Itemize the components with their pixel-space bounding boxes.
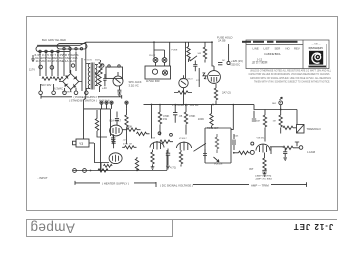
wire drop x151 <box>151 105 153 139</box>
svg-text:2A SLO-BLO: 2A SLO-BLO <box>180 78 193 81</box>
svg-text:117VAC 60W: 117VAC 60W <box>146 80 160 83</box>
svg-text:INT: INT <box>249 167 254 171</box>
page frame <box>27 17 338 237</box>
jack J3 footswitch block <box>73 139 95 147</box>
capacitor C6 filter-can <box>105 101 108 104</box>
capacitor C7 filter-can <box>110 101 113 104</box>
svg-text:PILOT: PILOT <box>149 55 156 57</box>
resistor R14 <box>283 126 297 129</box>
title block <box>242 40 331 83</box>
svg-text:V1A 6SL7: V1A 6SL7 <box>109 119 121 123</box>
resistor R6 diagonal <box>202 72 208 80</box>
bridge rectifier D1-D4 <box>59 70 82 92</box>
wire V6 to bus <box>183 88 185 105</box>
resistor R1 <box>42 77 52 80</box>
resistor R17 <box>137 132 150 135</box>
node J2 <box>211 41 213 43</box>
svg-text:FUSE: FUSE <box>172 50 178 52</box>
svg-text:J-12 JET: J-12 JET <box>293 222 333 231</box>
svg-text:( STAND BY SWITCH ): ( STAND BY SWITCH ) <box>69 98 97 102</box>
switch SW2 <box>190 56 197 61</box>
wire speaker tap <box>295 142 299 146</box>
resistor R28 dropping <box>99 60 102 74</box>
wire top B+ run <box>80 42 212 45</box>
wire AC drop <box>154 42 165 57</box>
svg-text:V2 6SL7: V2 6SL7 <box>179 138 188 140</box>
capacitor C15 interstage <box>112 136 116 148</box>
resistor R29 output <box>283 146 293 149</box>
svg-text:unimusic: unimusic <box>308 46 322 50</box>
svg-text:470K 1M: 470K 1M <box>123 144 132 146</box>
annotation dc signal line <box>193 182 307 187</box>
capacitor C17 <box>233 134 235 150</box>
resistor R24 grid leak <box>122 146 136 149</box>
svg-text:TONE CKT: TONE CKT <box>207 128 219 130</box>
resistor R22 <box>234 151 251 154</box>
node trem grid <box>251 142 254 145</box>
svg-text:+AMP OSC BIAS: +AMP OSC BIAS <box>255 178 272 181</box>
resistor R11 <box>210 105 213 129</box>
resistor R8 <box>214 84 217 105</box>
svg-text:Y3: Y3 <box>79 142 83 146</box>
node bus1 <box>151 104 153 106</box>
svg-text:470K: 470K <box>189 114 195 118</box>
resistor R3 <box>98 75 101 93</box>
wire heater drops <box>40 52 76 77</box>
node R22a <box>233 152 235 154</box>
pilot lamp PL1 <box>153 58 158 63</box>
capacitor C5 filter-can <box>100 101 103 104</box>
svg-text:VOL 1M: VOL 1M <box>214 164 222 166</box>
svg-text:CAPACITOR VALUES IN MICROFARAD: CAPACITOR VALUES IN MICROFARADS. VOLTAGE… <box>249 72 330 76</box>
svg-text:BLK GRN YEL RED: BLK GRN YEL RED <box>42 40 66 42</box>
svg-text:(LAMP DRIVEN): (LAMP DRIVEN) <box>255 174 272 177</box>
wire rect left branch <box>170 42 200 87</box>
capacitor C11 <box>111 134 115 140</box>
terminal TP4 <box>74 91 78 95</box>
svg-text:40 20 20 40: 40 20 20 40 <box>99 100 110 102</box>
svg-text:117VAC 60 W FUSE 1A SLO: 117VAC 60 W FUSE 1A SLO <box>36 59 77 63</box>
wire shield drop left <box>84 42 86 139</box>
node pin8 <box>101 64 104 67</box>
capacitor C18 plate <box>115 112 119 126</box>
capacitor C9 <box>173 105 177 123</box>
svg-text:SER: SER <box>275 46 281 50</box>
resistor R19 cathode <box>151 150 154 167</box>
resistor R13 <box>279 110 282 134</box>
resistor R10 <box>184 105 187 135</box>
transformer T1 secondary loops <box>36 44 87 52</box>
terminal TP3 <box>63 91 67 95</box>
wire fuse lead <box>228 44 230 61</box>
resistor R26 tone <box>215 134 218 153</box>
svg-text:LIST: LIST <box>264 46 270 50</box>
tube V3A triode envelope <box>177 142 192 151</box>
tube V1B triode envelope <box>109 153 122 164</box>
resistor R16 <box>122 128 140 131</box>
terminal TP1 <box>39 91 43 95</box>
fuse F1 terminal 2 <box>50 66 54 70</box>
resistor R20 coupling <box>160 140 173 143</box>
resistor R27 heater hum <box>135 157 138 171</box>
switch SW1 standby lever <box>95 69 101 75</box>
node pin7 <box>71 64 74 67</box>
wire tremolo output <box>270 147 299 154</box>
wire heater line top <box>37 44 80 46</box>
capacitor C1 electrolytic <box>103 74 106 86</box>
svg-text:V2A: V2A <box>151 136 155 139</box>
fuse F1 terminal <box>39 65 43 69</box>
svg-text:10M: 10M <box>256 121 260 123</box>
svg-text:TAKEN WITH VTVM. SCHEMATIC SUB: TAKEN WITH VTVM. SCHEMATIC SUBJECT TO CH… <box>254 79 330 83</box>
resistor R2 <box>53 77 63 80</box>
switch SW3 power <box>162 58 167 63</box>
svg-text:1M: 1M <box>273 121 276 123</box>
jack J5 input 2 <box>83 169 87 173</box>
resistor R21 <box>179 150 182 167</box>
svg-text:2A7 (2): 2A7 (2) <box>222 90 231 94</box>
jack J4 input 1 <box>73 169 77 173</box>
svg-text:MDL: MDL <box>275 52 281 56</box>
resistor R4 <box>187 42 190 62</box>
resistor R25 cathode <box>104 164 113 167</box>
node output jack <box>299 146 303 150</box>
transformer T1 core and primary <box>86 63 98 90</box>
svg-text:J-12GB: J-12GB <box>307 151 316 154</box>
wire HV secondary <box>81 58 83 91</box>
ground line input <box>31 55 35 62</box>
wire V1 grid <box>95 143 102 163</box>
svg-text:TREMOLO: TREMOLO <box>307 127 322 131</box>
tube V6 envelope small <box>179 75 188 87</box>
potentiometer VR1 volume wiper <box>214 157 220 162</box>
node bus2 <box>212 104 214 106</box>
tube V4 rectifier envelope <box>208 66 221 83</box>
resistor R9 <box>158 105 161 136</box>
wire terminal stubs <box>41 84 87 91</box>
svg-text:GROUND WITH NO SIGNAL APPLIED.: GROUND WITH NO SIGNAL APPLIED. LINE VOLT… <box>250 76 331 80</box>
node J1 <box>153 41 155 43</box>
tube V5 6X4 envelope <box>113 72 123 86</box>
wire V1B cathode <box>101 163 109 171</box>
svg-text:50V 30V: 50V 30V <box>41 83 52 87</box>
svg-text:UNLESS OTHERWISE NOTED ALL RES: UNLESS OTHERWISE NOTED ALL RESISTORS ARE… <box>250 68 331 72</box>
tone network enclosure <box>205 128 231 163</box>
wire V2 plate feed <box>125 109 128 144</box>
svg-text:4.7Ω: 4.7Ω <box>170 165 176 169</box>
wire grid diagonal <box>194 143 206 151</box>
resistor R12 <box>263 110 266 142</box>
svg-text:117V: 117V <box>29 68 35 72</box>
ground G5 <box>283 158 287 161</box>
svg-text:MODEL J-12 JET: MODEL J-12 JET <box>252 60 268 64</box>
svg-text:+320 DC: +320 DC <box>230 62 241 66</box>
svg-text:AMP — TRIM: AMP — TRIM <box>251 184 269 188</box>
tube V2B tremolo envelope <box>256 144 270 152</box>
svg-text:.05: .05 <box>179 114 183 118</box>
svg-text:LINE: LINE <box>253 46 259 50</box>
node B+ test <box>227 61 230 64</box>
wire bus step to tremolo <box>254 105 297 125</box>
logo: maker emblem <box>308 44 326 68</box>
ground G2 <box>111 140 115 144</box>
node jack dots <box>100 170 138 172</box>
ground G4 <box>263 172 267 176</box>
svg-text:350V: 350V <box>95 59 101 61</box>
tube V1A triode envelope <box>110 125 123 136</box>
capacitor C13 <box>262 170 266 172</box>
annotation heater supply line <box>75 181 156 187</box>
svg-text:( DC SIGNAL VOLTAGE ): ( DC SIGNAL VOLTAGE ) <box>160 183 193 187</box>
AC receptacle P1 <box>145 62 171 79</box>
ground G3 <box>151 166 170 169</box>
resistor R7 <box>174 91 192 94</box>
resistor R18 grid stopper <box>98 169 108 172</box>
svg-text:+40: +40 <box>102 86 107 90</box>
svg-text:100K: 100K <box>198 117 204 121</box>
capacitor C14 <box>283 148 287 157</box>
wire V1 plate feed <box>100 109 102 171</box>
capacitor C12 bypass <box>166 149 170 166</box>
svg-text:- INPUT: - INPUT <box>38 176 48 180</box>
grid cap node <box>250 150 254 154</box>
resistor R5 <box>203 42 206 62</box>
wire tone feed <box>231 105 233 130</box>
capacitor C3 <box>193 61 197 72</box>
capacitor C16 <box>203 149 207 160</box>
svg-text:— SSI —: — SSI — <box>311 44 321 46</box>
wire power-supply annotation <box>41 95 122 99</box>
svg-text:220K: 220K <box>126 125 132 129</box>
svg-text:1W: 1W <box>163 117 167 121</box>
svg-text:6.3VAC: 6.3VAC <box>54 86 63 90</box>
shield enclosure V1 <box>84 104 127 136</box>
wire rect drop <box>212 42 214 66</box>
notes paragraph <box>249 68 332 83</box>
svg-text:V2B 6SL7: V2B 6SL7 <box>257 138 267 140</box>
schematic small text labels <box>29 36 322 188</box>
node bus drops <box>159 104 234 106</box>
choke L1 enclosure <box>106 65 123 79</box>
ground G1 <box>118 92 122 97</box>
svg-text:+ STAND BY SW B+: + STAND BY SW B+ <box>172 103 199 107</box>
svg-text:PT 115V: PT 115V <box>84 60 93 62</box>
resistor R15 <box>95 110 107 137</box>
node lamp junction <box>280 109 282 111</box>
resistor R23 <box>263 153 266 171</box>
wire input jack bus <box>73 150 167 171</box>
capacitor C8 filter-can <box>125 101 128 104</box>
capacitor C10 <box>252 111 256 121</box>
lamp LA1 tremolo neon <box>279 97 283 109</box>
svg-text:SEL RECT: SEL RECT <box>62 92 72 94</box>
node mid2 <box>170 133 173 136</box>
svg-text:( HEATER SUPPLY ): ( HEATER SUPPLY ) <box>102 182 129 186</box>
svg-text:2A SB: 2A SB <box>218 39 226 43</box>
capacitor C2 <box>117 86 121 92</box>
tube V1B triode envelope <box>150 141 164 150</box>
svg-text:REV: REV <box>294 46 300 50</box>
node jack junction <box>90 170 92 172</box>
capacitor C4 <box>218 63 222 65</box>
svg-text:NC: NC <box>222 60 226 62</box>
terminal TP2 <box>52 91 56 95</box>
node mid1 <box>158 132 161 135</box>
heater pin circles <box>39 48 83 53</box>
svg-text:Ampeg: Ampeg <box>30 221 75 236</box>
terminal TP5 <box>85 91 89 95</box>
wire main B+ bus <box>144 104 255 106</box>
photocell PC1 <box>297 125 305 134</box>
svg-text:3.2Ω VC: 3.2Ω VC <box>129 83 139 87</box>
